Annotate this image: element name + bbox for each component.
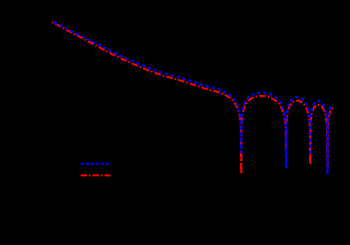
red dash-dot magnitude curve with nulls <box>52 22 334 174</box>
legend sample: red dash-dot line <box>81 174 111 176</box>
legend sample: blue dashed line <box>81 163 110 165</box>
blue dashed magnitude curve with nulls <box>54 22 334 173</box>
